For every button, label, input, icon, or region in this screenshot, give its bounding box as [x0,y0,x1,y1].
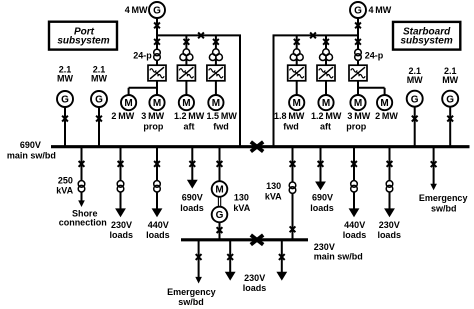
svg-text:Emergency: Emergency [167,287,216,297]
wire emergency switchboard feeder port [198,241,200,278]
svg-text:G: G [153,6,161,17]
arrow port 690V loads [187,180,198,189]
svg-text:fwd: fwd [213,121,229,131]
transformer starboard 440V loads [351,181,358,188]
wire port converter 1 to motors tee [156,81,158,96]
arrow shore connection [78,200,85,207]
svg-text:loads: loads [310,203,334,213]
svg-text:kVA: kVA [233,203,250,213]
svg-text:3 MW: 3 MW [347,111,370,121]
svg-text:690V: 690V [20,140,41,150]
breaker MG set top [217,161,223,167]
wire starboard propulsion branch 1 upper [296,35,298,65]
svg-text:440V: 440V [148,220,169,230]
breaker emergency feeder starboard [431,161,437,167]
svg-text:MW: MW [442,75,458,85]
converter starboard branch 3 [349,65,367,81]
breaker 130 kVA link top [290,161,296,167]
wire starboard 440V loads branch [353,148,355,209]
svg-text:G: G [61,95,69,106]
motor of 130 kVA MG set [212,181,228,197]
svg-text:G: G [216,210,224,221]
arrow emergency feeder port [195,277,202,284]
wire port 440V loads branch [156,148,158,209]
generator G 4 MW port [149,2,165,18]
wire starboard converter 3 to motors tee [357,81,359,96]
box Port subsystem [49,22,117,50]
wire port branch 3 to motor [215,81,217,96]
breaker starboard 230V loads [387,161,393,167]
arrow 230V loads left [225,272,236,281]
svg-text:MW: MW [57,73,73,83]
arrow 230V loads right [276,272,287,281]
generator of 130 kVA MG set [212,207,228,223]
svg-text:aft: aft [184,121,195,131]
svg-text:MW: MW [91,73,107,83]
svg-text:24-p: 24-p [365,51,384,61]
svg-text:G: G [95,95,103,106]
arrow emergency feeder starboard [430,184,437,191]
svg-text:loads: loads [377,230,401,240]
wire port 690V loads branch [191,148,193,181]
svg-text:kVA: kVA [265,191,282,201]
generator G 2.1 MW starboard G2 [442,91,458,107]
converter starboard branch 1 [288,65,306,81]
wire starboard propulsion feeder rail [273,34,359,36]
svg-text:4 MW: 4 MW [125,5,148,15]
wire port branch 2 to motor [185,81,187,96]
svg-text:loads: loads [343,230,367,240]
converter port branch 2 [177,65,195,81]
converter port branch 1 [148,65,166,81]
svg-text:M: M [354,98,362,109]
svg-text:M: M [153,98,161,109]
transformer starboard branch 1 [293,49,300,56]
breaker port propulsion branch 3 [213,39,219,45]
svg-text:250: 250 [58,175,73,185]
wire port 230V loads branch [120,148,122,209]
breaker port 690V loads [189,161,195,167]
svg-text:loads: loads [180,203,204,213]
breaker port 440V loads [154,161,160,167]
wire starboard propulsion branch 3 upper [357,50,359,66]
generator G 4 MW starboard [350,2,366,18]
wire starboard feeder riser to 690V bus [273,35,275,149]
transformer starboard branch 3 [355,49,362,56]
wire port propulsion branch 3 upper [215,35,217,65]
wire port propulsion branch 1 upper [156,50,158,66]
transformer port 230V loads [117,181,124,188]
wire starboard branch 2 to motor [325,81,327,96]
svg-text:loads: loads [110,230,134,240]
arrow port 440V loads [152,208,163,217]
transformer 250 kVA shore [78,181,85,188]
svg-text:4 MW: 4 MW [369,5,392,15]
breaker starboard G2 [447,116,453,122]
generator G 2.1 MW port G1 [57,91,73,107]
svg-text:prop: prop [143,121,163,131]
motor M 3 MW prop starboard [350,95,365,110]
wire starboard 690V loads branch [320,148,322,183]
bus 230V main switchboard [181,238,308,241]
svg-text:G: G [446,94,454,105]
breaker port propulsion branch 1 [154,39,160,45]
svg-text:aft: aft [320,121,331,131]
svg-text:loads: loads [243,283,267,293]
svg-text:sw/bd: sw/bd [178,297,204,307]
breaker starboard G1 [412,116,418,122]
breaker port propulsion branch 2 [184,39,190,45]
svg-text:230V: 230V [111,220,132,230]
breaker starboard propulsion branch 1 [294,39,300,45]
svg-text:M: M [322,98,330,109]
breaker starboard propulsion branch 3 [355,39,361,45]
svg-text:690V: 690V [312,192,333,202]
svg-text:subsystem: subsystem [57,35,109,46]
wire shore connection branch [81,148,83,202]
svg-text:1.2 MW: 1.2 MW [311,111,342,121]
wire emergency switchboard feeder starboard [433,148,435,185]
breaker emergency feeder port [196,254,202,260]
tie breaker 230V bus (normally open) [251,235,263,245]
generator G 2.1 MW starboard G1 [407,91,423,107]
svg-text:M: M [293,98,301,109]
arrow starboard 440V loads [349,208,360,217]
svg-text:sw/bd: sw/bd [431,204,457,214]
motor M 1.5 MW fwd port [208,95,223,110]
breaker 130 kVA link bottom [290,226,296,232]
arrow starboard 230V loads [384,208,395,217]
wire port propulsion feeder rail [156,34,241,36]
svg-text:fwd: fwd [283,121,299,131]
svg-text:kVA: kVA [56,185,73,195]
motor M 2 MW starboard [377,95,392,110]
svg-text:2 MW: 2 MW [375,111,398,121]
svg-text:130: 130 [266,181,281,191]
wire 230V loads branch right [281,241,283,273]
breaker 230V loads right [279,254,285,260]
breaker shore connection [79,161,85,167]
wire port propulsion branch 2 upper [185,35,187,65]
transformer starboard branch 2 [323,49,330,56]
svg-text:main sw/bd: main sw/bd [314,251,363,261]
svg-text:2 MW: 2 MW [111,111,134,121]
motor M 2 MW port [121,95,136,110]
breaker starboard propulsion branch 2 [323,39,329,45]
wire starboard 4MW generator drop [357,18,359,50]
breaker port 230V loads [118,161,124,167]
wire starboard branch 1 to motor [296,81,298,96]
converter port branch 3 [207,65,225,81]
svg-text:M: M [380,98,388,109]
breaker on starboard feeder rail [310,33,316,39]
svg-text:3 MW: 3 MW [141,111,164,121]
svg-text:M: M [212,98,220,109]
transformer port 440V loads [154,181,161,188]
svg-text:1.2 MW: 1.2 MW [174,111,205,121]
svg-text:M: M [215,185,223,196]
breaker port G2 [96,116,102,122]
wire 130 kVA transformer link branch [292,148,294,240]
wire port G1 drop to bus [64,106,66,148]
svg-text:subsystem: subsystem [400,35,452,46]
motor M 3 MW prop port [149,95,164,110]
motor M 1.8 MW fwd starboard [289,95,304,110]
breaker starboard generator G-S3 [355,23,361,29]
arrow starboard 690V loads [315,182,326,191]
svg-text:690V: 690V [182,192,203,202]
svg-text:230V: 230V [244,273,265,283]
svg-text:1.8 MW: 1.8 MW [274,111,305,121]
bus 690V main switchboard [51,145,470,148]
svg-text:prop: prop [346,121,366,131]
svg-text:G: G [354,6,362,17]
wire starboard G2 drop to bus [449,106,451,148]
wire 230V loads branch left [229,241,231,273]
arrow port 230V loads [115,208,126,217]
wire port G2 drop to bus [98,106,100,148]
transformer port branch 1 [154,49,161,56]
breaker MG set bottom [217,227,223,233]
tie breaker 690V bus (normally open) [251,142,263,152]
wire port feeder riser to 690V bus [239,35,241,149]
wire motor-generator set branch [219,148,221,182]
wire starboard G1 drop to bus [414,106,416,148]
svg-text:24-p: 24-p [133,51,152,61]
breaker 230V loads left [227,254,233,260]
box Starboard subsystem [393,22,460,50]
wire MG set to 230V bus [219,222,221,240]
svg-text:M: M [124,98,132,109]
svg-text:440V: 440V [344,220,365,230]
svg-text:MW: MW [407,75,423,85]
breaker port G1 [62,116,68,122]
transformer port branch 2 [183,49,190,56]
transformer 130 kVA link [289,182,296,189]
generator G 2.1 MW port G2 [91,91,107,107]
converter starboard branch 2 [317,65,335,81]
svg-text:M: M [182,98,190,109]
svg-text:130: 130 [234,192,249,202]
wire starboard propulsion branch 2 upper [325,35,327,65]
wire starboard 230V loads branch [389,148,391,209]
svg-text:Emergency: Emergency [419,193,468,203]
breaker starboard 690V loads [318,161,324,167]
motor M 1.2 MW aft port [179,95,194,110]
svg-text:connection: connection [59,217,107,227]
motor M 1.2 MW aft starboard [318,95,333,110]
svg-text:main sw/bd: main sw/bd [7,150,56,160]
breaker on port feeder rail [198,33,204,39]
svg-text:G: G [411,94,419,105]
svg-text:loads: loads [146,230,170,240]
shaft MG set [217,197,219,207]
transformer starboard 230V loads [386,181,393,188]
svg-text:230V: 230V [379,220,400,230]
svg-text:1.5 MW: 1.5 MW [207,111,238,121]
breaker port generator G-P3 [154,23,160,29]
breaker starboard 440V loads [351,161,357,167]
transformer port branch 3 [213,49,220,56]
wire port 4MW generator drop [156,18,158,50]
